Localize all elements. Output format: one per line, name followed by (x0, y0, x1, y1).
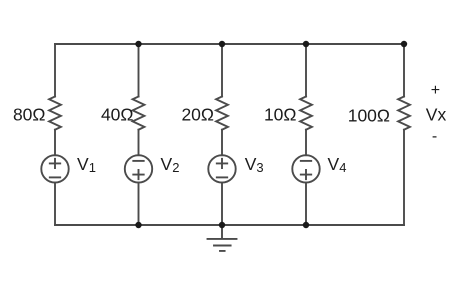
wire branch1 upper (54, 44, 56, 97)
node bottom branch3 / ground junction (219, 222, 225, 228)
source V3 minus sign (217, 176, 227, 178)
wire branch1 mid (54, 130, 56, 156)
source V4 circle (292, 155, 319, 182)
source V2 minus sign (133, 160, 143, 162)
svg-text:V2: V2 (161, 154, 180, 175)
source V4 minus sign (301, 160, 311, 162)
source V2 plus sign (133, 170, 143, 179)
svg-text:Vx: Vx (426, 105, 447, 125)
source V2 circle (125, 155, 152, 182)
svg-text:80Ω: 80Ω (13, 104, 46, 124)
wire branch3 mid (221, 130, 223, 156)
resistor R2 40ohm (133, 97, 145, 130)
wire branch2 upper (138, 44, 140, 97)
ground (208, 225, 237, 251)
resistor R4 10ohm (300, 97, 312, 130)
wire branch3 upper (221, 44, 223, 97)
svg-text:V3: V3 (245, 154, 264, 175)
wire branch5 upper (403, 44, 405, 97)
node top-right corner (401, 41, 407, 47)
source V3 circle (208, 155, 235, 182)
source V1 plus sign (50, 159, 60, 168)
source V1 minus sign (50, 176, 60, 178)
node top branch3 (219, 41, 225, 47)
wire bottom bus (55, 224, 404, 226)
source V4 plus sign (301, 170, 311, 179)
wire branch4 mid (305, 130, 307, 156)
svg-text:20Ω: 20Ω (181, 104, 214, 124)
wire branch4 upper (305, 44, 307, 97)
resistor R1 80ohm (49, 97, 61, 130)
wire branch2 mid (138, 130, 140, 156)
svg-text:100Ω: 100Ω (348, 106, 390, 126)
svg-text:V4: V4 (328, 154, 347, 175)
svg-text:V1: V1 (77, 154, 96, 175)
svg-text:+: + (431, 82, 440, 99)
resistor R5 100ohm (398, 97, 410, 130)
wire top bus (55, 43, 404, 45)
source V1 circle (41, 155, 68, 182)
resistor R3 20ohm (216, 97, 228, 130)
svg-text:40Ω: 40Ω (101, 104, 134, 124)
svg-text:10Ω: 10Ω (264, 104, 297, 124)
wire branch3 lower (221, 183, 223, 225)
node bottom branch4 (303, 222, 309, 228)
node bottom branch2 (135, 222, 141, 228)
wire branch5 lower (403, 130, 405, 225)
svg-text:-: - (432, 128, 437, 145)
wire branch2 lower (138, 183, 140, 225)
node top branch4 (303, 41, 309, 47)
wire branch1 lower (54, 183, 56, 225)
source V3 plus sign (217, 159, 227, 168)
wire branch4 lower (305, 183, 307, 225)
node top branch2 (135, 41, 141, 47)
